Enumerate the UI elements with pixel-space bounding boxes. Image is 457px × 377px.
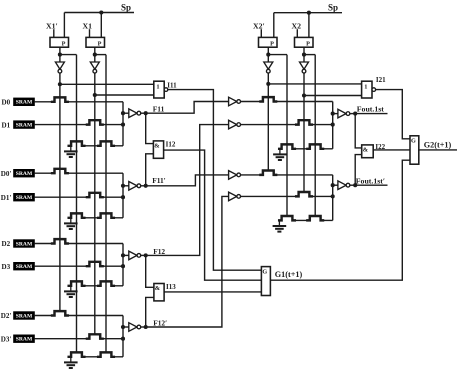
- svg-text:D0: D0: [2, 99, 11, 107]
- wire I11 input 1: [60, 83, 154, 85]
- svg-text:SRAM: SRAM: [16, 100, 33, 106]
- wire row R2b: [241, 195, 333, 197]
- inverter INV-R1 (from F11): [229, 97, 241, 106]
- svg-text:D0′: D0′: [1, 170, 12, 178]
- wire row R2a: [241, 174, 333, 176]
- svg-text:I11: I11: [167, 81, 177, 89]
- SRAM cell D3: [14, 263, 35, 271]
- wire row D0: [34, 101, 123, 103]
- svg-text:Sp: Sp: [328, 3, 338, 13]
- junction X2 output: [302, 53, 306, 57]
- wire F11' to I12 input: [146, 154, 154, 186]
- wire gate column A: [59, 84, 61, 311]
- wire X1' buffer output: [59, 47, 61, 62]
- wire F11 to right-half inverter: [146, 102, 229, 114]
- SRAM cell D2: [14, 240, 35, 248]
- latch G2: [410, 136, 419, 164]
- inverter INV-FO1: [338, 109, 350, 118]
- transistor M-R2a: [261, 171, 277, 175]
- wire X2' branch to column B2: [268, 54, 287, 56]
- wire X1' branch to column B: [60, 54, 77, 56]
- wire X1 label stub: [89, 29, 91, 37]
- svg-text:P: P: [270, 40, 274, 47]
- junction node Fout.1st': [353, 183, 357, 187]
- wire Fout.1st' to I22 input: [355, 155, 362, 186]
- svg-text:D3′: D3′: [1, 335, 12, 343]
- svg-text:1: 1: [156, 83, 159, 90]
- svg-text:G: G: [411, 138, 416, 145]
- ground g1p: [64, 218, 78, 229]
- svg-text:SRAM: SRAM: [16, 313, 33, 319]
- wire X2 buffer output: [303, 47, 305, 62]
- transistor M-D1': [87, 193, 103, 197]
- wire Fout.1st' label stub: [355, 184, 387, 186]
- transistor M-D2: [52, 239, 68, 243]
- transistor M-D0: [52, 97, 68, 101]
- wire row D3': [34, 338, 123, 340]
- gate I22: [362, 145, 374, 158]
- junction Fout' col / R2b: [331, 194, 335, 198]
- wire INV3 output: [267, 73, 269, 84]
- wire row R1b: [241, 124, 333, 126]
- inverter INV-R2 (from F12): [229, 120, 241, 129]
- inverter INV-F12': [129, 323, 141, 332]
- wire gate column B (X1' direct): [76, 55, 78, 353]
- wire row D0': [34, 172, 123, 174]
- svg-text:X2′: X2′: [253, 21, 265, 30]
- svg-text:X1′: X1′: [46, 21, 58, 30]
- wire to inverter INV-FO1: [333, 113, 338, 115]
- svg-text:SRAM: SRAM: [16, 337, 33, 343]
- svg-text:G: G: [262, 268, 267, 275]
- wire Fout.1st to I22 input: [355, 114, 362, 148]
- wire gate column A2: [267, 84, 269, 171]
- wire pulldown row g1p: [84, 217, 123, 219]
- wire pulldown row g2: [84, 285, 123, 287]
- junction node Fout.1st: [353, 112, 357, 116]
- svg-text:P: P: [62, 40, 66, 47]
- gate I12: [153, 141, 163, 158]
- wire to inverter INV-F12: [123, 254, 129, 256]
- wire pulldown row R2mid: [279, 219, 333, 221]
- wire pulldown row g1: [84, 145, 123, 147]
- wire INV-FO1 out: [350, 113, 355, 115]
- wire I11 input 2: [95, 94, 154, 96]
- svg-text:I21: I21: [376, 76, 386, 84]
- wire X2' buffer output: [267, 47, 269, 62]
- wire INV-F11' out: [141, 185, 146, 187]
- wire gate column C: [94, 95, 96, 335]
- inverter INV-F12: [129, 251, 141, 260]
- transistor Mb-g1: [69, 141, 85, 145]
- wire F11' to right-half inverter: [146, 175, 229, 186]
- svg-text:F12′: F12′: [153, 318, 167, 327]
- junction F12 col / inverter: [121, 253, 125, 257]
- wire F12 to I13 input: [146, 255, 154, 287]
- wire I22 output to G2 input: [373, 149, 410, 151]
- wire row R1a: [241, 101, 333, 103]
- wire G2 output: [419, 149, 457, 151]
- svg-text:Sp: Sp: [121, 2, 131, 12]
- buffer B4 (X2): [295, 37, 314, 47]
- wire I13 output to G1 input: [164, 291, 261, 293]
- ground g2p: [64, 357, 78, 368]
- wire I11 output to G1 input: [168, 90, 262, 271]
- svg-text:I12: I12: [166, 141, 176, 149]
- wire INV4 output: [303, 73, 305, 95]
- svg-text:D2: D2: [2, 240, 11, 248]
- transistor Mb-R1mid: [279, 144, 295, 148]
- wire collection column F11': [122, 173, 124, 218]
- wire Sp drop to X2 buffer: [308, 13, 310, 38]
- wire Sp drop to X2' buffer: [273, 13, 275, 38]
- inverter INV4 (X2 bar): [300, 62, 309, 73]
- wire to inverter INV-F11: [123, 112, 129, 114]
- wire X1 branch to column D: [95, 54, 106, 56]
- svg-text:P: P: [98, 40, 102, 47]
- wire G1 output to G2 input: [270, 160, 410, 280]
- wire INV-FO2 out: [350, 184, 355, 186]
- buffer B3 (X2'): [259, 37, 278, 47]
- wire gate column B2: [286, 55, 288, 217]
- svg-text:&: &: [155, 285, 161, 292]
- SRAM cell D0': [14, 170, 35, 178]
- SRAM cell D0: [14, 98, 35, 106]
- transistor Md-g1: [98, 141, 114, 145]
- inverter INV1 (X1' bar): [55, 62, 64, 73]
- junction node a1: [58, 82, 62, 86]
- transistor M-R1a: [261, 97, 277, 101]
- buffer B1 (X1'): [50, 37, 69, 47]
- wire INV-F12 out: [141, 254, 146, 256]
- transistor Md-R1mid: [307, 144, 323, 148]
- svg-text:G1(t+1): G1(t+1): [275, 270, 303, 279]
- svg-text:F11: F11: [153, 105, 165, 114]
- svg-text:1: 1: [364, 83, 367, 90]
- svg-text:SRAM: SRAM: [16, 195, 33, 201]
- inverter INV2 (X1 bar): [90, 62, 99, 73]
- junction node c2: [302, 93, 306, 97]
- svg-text:F11′: F11′: [152, 176, 166, 185]
- junction F12 col / D3 row: [121, 264, 125, 268]
- wire I12 output to G1 input: [164, 150, 262, 280]
- wire row D2: [34, 243, 123, 245]
- junction F12' col / D3' row: [121, 337, 125, 341]
- svg-text:G2(t+1): G2(t+1): [424, 140, 452, 149]
- junction node F11: [144, 111, 148, 115]
- gate I13: [154, 284, 164, 301]
- wire Sp drop to X1' buffer: [63, 13, 65, 38]
- transistor Mb-g1p: [69, 213, 85, 217]
- wire X2 label stub: [296, 29, 298, 37]
- svg-text:SRAM: SRAM: [16, 171, 33, 177]
- wire collection column Fout: [332, 102, 334, 149]
- svg-text:F12: F12: [153, 247, 165, 256]
- wire collection column Fout': [332, 175, 334, 221]
- junction F11 col / inverter: [121, 111, 125, 115]
- svg-text:D3: D3: [2, 263, 11, 271]
- wire row D1': [34, 196, 123, 198]
- transistor Mb-g2: [69, 281, 85, 285]
- wire X2 branch to column D2: [304, 54, 315, 56]
- inverter INV-F11: [129, 109, 141, 118]
- svg-text:X1: X1: [83, 21, 93, 30]
- svg-text:X2: X2: [292, 21, 302, 30]
- transistor M-D3': [87, 334, 103, 338]
- SRAM cell D1: [14, 121, 35, 129]
- gate I11: [154, 81, 168, 98]
- wire Sp drop to X1 buffer: [100, 13, 102, 38]
- wire INV-F12' out: [141, 326, 146, 328]
- wire Sp rail right: [274, 12, 342, 14]
- junction node F12': [144, 325, 148, 329]
- svg-text:SRAM: SRAM: [16, 123, 33, 129]
- wire F11 to I12 input: [146, 113, 154, 143]
- transistor M-D0': [52, 169, 68, 173]
- junction X1 output: [93, 53, 97, 57]
- wire INV1 output: [59, 73, 61, 84]
- SRAM cell D2': [14, 312, 35, 320]
- svg-text:SRAM: SRAM: [16, 264, 33, 270]
- svg-text:D1′: D1′: [1, 194, 12, 202]
- junction Fout col / R1b: [331, 123, 335, 127]
- svg-text:D2′: D2′: [1, 312, 12, 320]
- wire INV-F11 out: [141, 112, 146, 114]
- wire I21 output to G2 input: [376, 90, 410, 139]
- wire F12' to right-half inverter: [146, 196, 229, 327]
- wire collection column F12': [122, 316, 124, 357]
- wire I21 input 1: [268, 83, 361, 85]
- svg-text:&: &: [154, 143, 160, 150]
- junction X1' output: [58, 53, 62, 57]
- junction Fout' col / inverter: [331, 183, 335, 187]
- latch G1: [261, 267, 270, 296]
- inverter INV-R3 (from F11'): [229, 171, 241, 180]
- svg-text:&: &: [363, 147, 369, 154]
- svg-text:P: P: [306, 40, 310, 47]
- wire F12 to right-half inverter: [146, 125, 229, 256]
- junction node F12: [144, 253, 148, 257]
- wire gate column D (X1 direct): [105, 55, 107, 353]
- ground g2: [64, 286, 78, 297]
- wire Sp rail left: [64, 12, 134, 14]
- wire collection column F12: [122, 244, 124, 286]
- buffer B2 (X1): [86, 37, 105, 47]
- wire collection column F11: [122, 102, 124, 146]
- transistor Md-R2mid: [307, 216, 323, 220]
- gate I21: [362, 81, 376, 98]
- junction Sp/X2: [307, 11, 311, 15]
- transistor M-R1b: [296, 120, 312, 124]
- svg-text:Fout.1st: Fout.1st: [357, 104, 384, 113]
- transistor Mb-g2p: [69, 352, 85, 356]
- transistor Mb-R2mid: [279, 216, 295, 220]
- transistor M-R2b: [296, 192, 312, 196]
- junction Fout col / inverter: [331, 112, 335, 116]
- wire INV2 output: [94, 73, 96, 95]
- wire gate column D2: [314, 55, 316, 217]
- junction F11' col / inverter: [121, 184, 125, 188]
- junction F12' col / inverter: [121, 325, 125, 329]
- svg-text:I13: I13: [166, 283, 176, 291]
- ground R1mid: [273, 149, 287, 160]
- wire pulldown row R1mid: [279, 148, 333, 150]
- junction F11' col / D1' row: [121, 195, 125, 199]
- junction node a2: [266, 82, 270, 86]
- inverter INV-FO2: [338, 181, 350, 190]
- wire to inverter INV-F12': [123, 326, 129, 328]
- svg-text:SRAM: SRAM: [16, 241, 33, 247]
- ground R2mid: [273, 220, 287, 231]
- junction Sp/X1: [99, 10, 103, 14]
- wire F12' to I13 input: [146, 297, 154, 327]
- wire X1' label stub: [53, 29, 55, 37]
- junction node F11': [144, 184, 148, 188]
- SRAM cell D1': [14, 194, 35, 202]
- junction X2' output: [266, 53, 270, 57]
- ground g1: [64, 146, 78, 157]
- wire pulldown row g2p: [84, 356, 123, 358]
- SRAM cell D3': [14, 335, 35, 343]
- junction node c1: [93, 93, 97, 97]
- wire row D3: [34, 265, 123, 267]
- wire I21 input 2: [304, 95, 362, 97]
- transistor Md-g1p: [98, 213, 114, 217]
- inverter INV3 (X2' bar): [264, 62, 273, 73]
- transistor M-D1: [87, 120, 103, 124]
- wire row D2': [34, 315, 123, 317]
- wire row D1: [34, 124, 123, 126]
- wire X2' label stub: [260, 29, 262, 37]
- svg-text:D1: D1: [2, 121, 11, 129]
- wire gate column C2: [303, 96, 305, 193]
- junction F11 col / D1 row: [121, 123, 125, 127]
- transistor M-D2': [52, 311, 68, 315]
- svg-text:Fout.1st′: Fout.1st′: [356, 177, 385, 186]
- transistor Md-g2: [98, 281, 114, 285]
- inverter INV-F11': [129, 182, 141, 191]
- transistor M-D3: [87, 262, 103, 266]
- wire to inverter INV-FO2: [333, 184, 338, 186]
- wire X1 buffer output: [94, 47, 96, 62]
- wire to inverter INV-F11': [123, 185, 129, 187]
- wire Fout.1st label stub: [355, 113, 387, 115]
- transistor Md-g2p: [98, 352, 114, 356]
- inverter INV-R4 (from F12'): [229, 192, 241, 201]
